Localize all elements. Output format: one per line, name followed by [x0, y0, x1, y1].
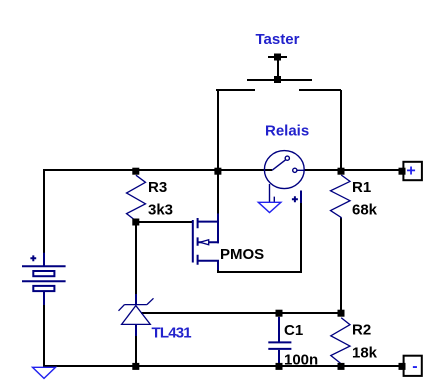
svg-text:Taster: Taster	[256, 31, 300, 48]
svg-text:100n: 100n	[284, 352, 318, 369]
svg-text:68k: 68k	[352, 202, 378, 219]
svg-text:-: -	[412, 358, 417, 375]
svg-text:R1: R1	[352, 179, 371, 196]
svg-text:Relais: Relais	[265, 123, 309, 140]
svg-text:R2: R2	[352, 322, 371, 339]
svg-text:TL431: TL431	[152, 324, 192, 341]
svg-text:PMOS: PMOS	[220, 246, 264, 263]
svg-text:18k: 18k	[352, 345, 378, 362]
svg-text:3k3: 3k3	[148, 202, 173, 219]
svg-text:R3: R3	[148, 179, 167, 196]
svg-text:+: +	[406, 163, 415, 180]
svg-text:C1: C1	[284, 322, 303, 339]
